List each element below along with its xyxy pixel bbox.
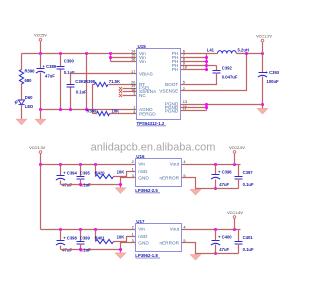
wire C401 top: [238, 230, 240, 242]
wire PGND pins: [181, 108, 207, 111]
junction PH10: [205, 68, 208, 71]
svg-text:VSENSE: VSENSE: [159, 88, 178, 93]
resistor R399: [97, 111, 110, 115]
regulator U15 TPS54312 body: [137, 44, 181, 126]
ground main: [35, 119, 46, 125]
junction VIN-C390: [59, 52, 62, 55]
junction VCC2.5V tap: [233, 163, 236, 166]
ground LED: [16, 119, 27, 125]
power VCC3.3V: [29, 146, 45, 153]
svg-text:PGND: PGND: [165, 109, 179, 114]
capacitor C395: [77, 177, 85, 180]
wire VIN bus: [22, 53, 137, 55]
junction PH9: [205, 64, 208, 67]
junction U17 gnd rail: [119, 248, 122, 251]
svg-text:2: 2: [132, 159, 134, 164]
junction gnd-corner: [39, 108, 42, 111]
wire VCC2.5V drop: [234, 154, 236, 165]
wire U16 gnd: [121, 178, 136, 188]
svg-text:0.1uF: 0.1uF: [243, 247, 254, 252]
junction VIN-VCC5V: [39, 52, 42, 55]
U17 pin names: [138, 227, 179, 246]
wire R399 right: [110, 113, 137, 115]
wire stub FSEL: [123, 88, 137, 90]
junction mid-C394: [59, 163, 62, 166]
svg-text:+ C400: + C400: [218, 235, 232, 240]
svg-text:1: 1: [132, 232, 134, 237]
junction C396 gnd: [214, 187, 217, 190]
wire U17 nERROR: [182, 243, 196, 255]
wire stub SS/ENA: [123, 91, 137, 93]
svg-text:Vin: Vin: [138, 227, 145, 232]
svg-text:0.1uF: 0.1uF: [76, 90, 87, 95]
svg-text:C390: C390: [64, 59, 75, 64]
U15 right pin numbers: [183, 48, 188, 111]
svg-text:0.047uF: 0.047uF: [222, 75, 238, 80]
capacitor C390: [57, 67, 65, 70]
ground U16: [115, 188, 126, 194]
wire mid rail: [41, 164, 136, 166]
wire R396 to D60: [21, 84, 23, 100]
capacitor C397: [235, 177, 243, 180]
svg-text:LP3962-2.5: LP3962-2.5: [135, 188, 158, 193]
svg-text:LP3962-1.8: LP3962-1.8: [135, 253, 158, 258]
capacitor C393: [258, 70, 280, 84]
svg-text:47uF: 47uF: [219, 182, 229, 187]
svg-text:Vin: Vin: [139, 59, 146, 64]
wire GND bus: [41, 109, 137, 111]
ground nERROR U17: [190, 255, 201, 261]
capacitor C389: [36, 64, 57, 79]
svg-text:VCC5V: VCC5V: [34, 34, 47, 38]
junction VIN-vert: [85, 52, 88, 55]
no-connect NC: [119, 94, 122, 97]
wire VSENSE: [181, 54, 247, 91]
svg-text:+ C398: + C398: [63, 235, 77, 240]
svg-text:C399: C399: [80, 235, 91, 240]
wire C400 top: [215, 230, 217, 241]
wire C396 bottom: [215, 180, 217, 189]
svg-text:5: 5: [183, 79, 185, 84]
svg-text:Vout: Vout: [170, 162, 180, 167]
svg-text:C397: C397: [243, 170, 254, 175]
power VCC2.5V: [229, 146, 245, 153]
junction PGND12: [205, 106, 208, 109]
svg-text:VCC2.5V: VCC2.5V: [229, 146, 245, 150]
svg-text:C401: C401: [243, 235, 254, 240]
junction VIN-pin15: [109, 52, 112, 55]
wire PH to L41: [207, 53, 218, 55]
wire bot out gnd rail: [196, 253, 239, 255]
wire VCC3.3V drop: [40, 154, 42, 165]
junction PH8: [205, 60, 208, 63]
svg-text:nSD: nSD: [138, 234, 148, 239]
wire PH tie: [206, 54, 208, 70]
wire C391 top: [70, 74, 72, 85]
junction mid-vcc: [39, 163, 42, 166]
wire C401 bottom: [238, 244, 240, 254]
wire C395 bottom: [80, 179, 82, 185]
svg-text:U16: U16: [136, 154, 145, 159]
U17 pin numbers: [132, 224, 187, 243]
capacitor C391: [67, 85, 75, 88]
svg-text:R396: R396: [25, 69, 36, 74]
junction bot-C398: [59, 228, 62, 231]
power VCC1.8V: [227, 211, 243, 218]
svg-text:5.2uH: 5.2uH: [238, 48, 249, 53]
svg-text:47uF: 47uF: [62, 248, 72, 253]
svg-text:C392: C392: [222, 66, 233, 71]
wire pin15/16 tie: [111, 54, 137, 62]
svg-text:nSD: nSD: [138, 169, 148, 174]
svg-text:GND: GND: [138, 175, 149, 180]
junction VSENSE tap: [245, 52, 248, 55]
svg-text:+ C394: + C394: [63, 170, 77, 175]
wire mid gnd rail: [61, 184, 121, 186]
svg-text:47uF: 47uF: [45, 74, 55, 79]
junction C399 gnd: [79, 248, 82, 251]
wire C400 bottom: [215, 245, 217, 254]
wire C397 top: [238, 165, 240, 177]
svg-text:U17: U17: [136, 219, 145, 224]
svg-text:10K: 10K: [117, 235, 125, 240]
LED D60: [15, 100, 25, 105]
wire C392 top lead: [216, 66, 218, 71]
ground nERROR U16: [190, 189, 201, 195]
svg-text:680: 680: [25, 78, 33, 83]
junction gnd-C390: [59, 108, 62, 111]
wire gnd drop: [40, 110, 42, 120]
junction C400: [214, 228, 217, 231]
junction gnd-vert: [85, 108, 88, 111]
ground U17: [115, 253, 126, 259]
wire L41 to output: [237, 53, 263, 55]
wire R401 up: [95, 230, 97, 242]
junction U16 gnd rail: [119, 183, 122, 186]
wire R399 left: [93, 113, 97, 115]
wire bus to R396: [21, 54, 23, 70]
svg-text:GND: GND: [138, 241, 149, 246]
svg-text:PERGD: PERGD: [139, 111, 156, 116]
wire PGND pin13: [181, 104, 263, 106]
resistor R398: [95, 82, 109, 86]
svg-text:L41: L41: [207, 48, 215, 53]
resistor R396: [19, 70, 23, 85]
wire PGND tie: [206, 105, 208, 111]
wire VCC5V to bus: [40, 42, 42, 54]
wire VCC1.2V drop: [262, 43, 264, 54]
wire U16 Vout rail: [182, 164, 241, 166]
no-connect SS/ENA: [119, 90, 122, 93]
wire vertical x86: [86, 54, 88, 110]
wire C394 top: [60, 165, 62, 176]
svg-text:2: 2: [132, 224, 134, 229]
junction PGND13: [205, 103, 208, 106]
svg-text:PH: PH: [172, 67, 179, 72]
svg-text:R401: R401: [95, 235, 106, 240]
wire PH pins: [181, 54, 207, 70]
capacitor C400: [211, 235, 232, 253]
svg-text:NC: NC: [139, 93, 146, 98]
svg-text:+ C389: + C389: [43, 64, 57, 69]
svg-text:47uF: 47uF: [219, 247, 229, 252]
junction C393 gnd: [261, 103, 264, 106]
svg-text:16: 16: [131, 56, 135, 61]
resistor R401: [96, 239, 114, 243]
svg-text:100uF: 100uF: [267, 79, 280, 84]
power VCC5V: [34, 34, 47, 42]
svg-text:D60: D60: [25, 95, 33, 100]
svg-text:LED: LED: [25, 104, 33, 109]
wire R420 to nSD: [114, 172, 136, 177]
svg-text:C395: C395: [80, 170, 91, 175]
wire C393 bottom: [262, 77, 264, 109]
wire C394 bottom: [60, 181, 62, 185]
no-connect FSEL: [119, 87, 122, 90]
svg-text:TPS54312-1.2: TPS54312-1.2: [137, 121, 165, 126]
svg-text:+ C393: + C393: [266, 70, 280, 75]
svg-text:Vout: Vout: [170, 227, 180, 232]
wire bot gnd rail: [61, 249, 121, 251]
resistor R420: [96, 174, 114, 178]
wire U17 gnd: [121, 243, 136, 253]
U15 left pin numbers: [131, 48, 136, 114]
wire U17 Vout rail: [182, 229, 241, 231]
svg-text:10K: 10K: [112, 109, 120, 114]
wire C399 top: [80, 230, 82, 242]
U16 pin numbers: [132, 159, 187, 178]
wire C392 to BOOT: [181, 73, 217, 85]
U15 left pin names: [139, 51, 157, 117]
wire feed to bottom: [40, 165, 42, 230]
svg-text:anlidapcb.en.alibaba.com: anlidapcb.en.alibaba.com: [91, 142, 216, 154]
junction C396: [214, 163, 217, 166]
junction pin15: [109, 56, 112, 59]
wire C391 bottom: [70, 88, 72, 110]
wire C389 top: [40, 54, 42, 69]
svg-text:10K: 10K: [117, 170, 125, 175]
svg-text:BOOT: BOOT: [165, 82, 178, 87]
wire C389 bottom: [40, 73, 42, 110]
svg-text:Vin: Vin: [138, 162, 145, 167]
wire R401 to nSD: [114, 237, 136, 242]
junction VCC1.8V tap: [233, 228, 236, 231]
svg-text:nERROR: nERROR: [159, 241, 179, 246]
wire C398 top: [60, 230, 62, 241]
U15 right pin names: [159, 51, 179, 114]
ground C393: [257, 108, 268, 114]
wire VCC1.8V drop: [234, 219, 236, 230]
junction mid-C395: [79, 163, 82, 166]
svg-text:R398: R398: [85, 79, 96, 84]
junction gnd-C391: [69, 108, 72, 111]
svg-text:17: 17: [131, 69, 135, 74]
junction mid-R420: [94, 163, 97, 166]
junction C400 gnd: [214, 252, 217, 255]
wire RT: [109, 84, 137, 86]
regulator U17 LP3962-1.8 body: [135, 219, 181, 258]
svg-text:0.1uF: 0.1uF: [243, 182, 254, 187]
capacitor C401: [235, 242, 243, 245]
inductor L41: [218, 51, 237, 54]
wire U16 nERROR: [182, 178, 196, 190]
wire D60 to ground: [21, 105, 23, 120]
capacitor C396: [211, 169, 232, 187]
svg-text:VCC3.3V: VCC3.3V: [29, 146, 45, 150]
wire C399 bottom: [80, 244, 82, 250]
svg-text:1: 1: [132, 167, 134, 172]
svg-text:+ C396: + C396: [218, 169, 232, 174]
capacitor C398: [56, 235, 78, 252]
junction C395 gnd: [79, 183, 82, 186]
svg-text:3: 3: [133, 91, 135, 96]
wire bottom rail: [41, 229, 136, 231]
svg-text:47uF: 47uF: [62, 183, 72, 188]
wire mid out gnd rail: [196, 188, 239, 190]
junction VCC1.2V: [261, 52, 264, 55]
wire R420 up: [95, 165, 97, 177]
wire C390 bottom: [60, 70, 62, 110]
capacitor C394: [56, 170, 78, 187]
svg-text:U15: U15: [138, 44, 147, 49]
wire C392 top link: [207, 65, 217, 67]
svg-text:VCC1.2V: VCC1.2V: [256, 35, 272, 39]
capacitor C392: [213, 71, 221, 74]
svg-text:VCC1.8V: VCC1.8V: [227, 211, 243, 215]
U16 pin names: [138, 162, 179, 181]
capacitor C399: [77, 242, 85, 245]
wire C397 bottom: [238, 179, 240, 189]
wire C395 top: [80, 165, 82, 177]
svg-text:R420: R420: [95, 170, 106, 175]
wire VBIAS: [71, 73, 137, 75]
junction bot-C399: [79, 228, 82, 231]
wire C398 bottom: [60, 246, 62, 250]
junction bot-R401: [94, 228, 97, 231]
wire stub NC: [123, 95, 137, 97]
wire C390 top: [60, 54, 62, 67]
svg-text:VBIAS: VBIAS: [139, 71, 153, 76]
svg-text:nERROR: nERROR: [159, 175, 179, 180]
wire R398 left: [93, 85, 95, 114]
svg-text:R399: R399: [87, 109, 98, 114]
wire C393 top: [262, 54, 264, 73]
svg-text:71.5K: 71.5K: [109, 79, 120, 84]
junction PH7: [205, 56, 208, 59]
regulator U16 LP3962-2.5 body: [135, 154, 181, 193]
wire C396 top: [215, 165, 217, 175]
power VCC1.2V: [256, 35, 272, 42]
